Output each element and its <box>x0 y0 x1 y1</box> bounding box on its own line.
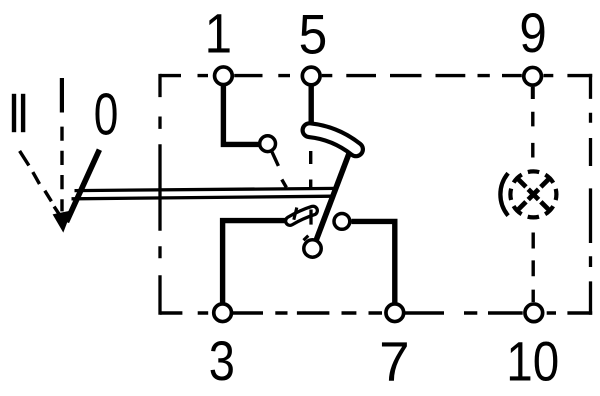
lever arrowhead <box>53 210 72 232</box>
terminal 9 stub <box>531 87 535 99</box>
lamp dashed circle <box>510 171 556 217</box>
actuator lever (position 0) <box>67 150 100 222</box>
lamp X cross <box>518 179 548 209</box>
svg-text:10: 10 <box>506 331 559 393</box>
enclosure left border <box>158 74 161 315</box>
terminal 1 <box>215 67 233 85</box>
phantom arm vertical dashed <box>309 151 312 189</box>
actuator shaft bottom line <box>72 196 334 199</box>
svg-text:5: 5 <box>299 4 328 66</box>
svg-text:0: 0 <box>94 82 119 148</box>
svg-text:9: 9 <box>519 2 546 65</box>
contact circle to terminal 7 <box>334 214 350 230</box>
position II dashed lever line <box>20 151 60 215</box>
wire bracket terminal 7 <box>352 221 395 304</box>
bridge rivet tick 3 <box>304 236 309 241</box>
dashed wire lamp to terminal 10 <box>532 233 535 303</box>
svg-text:1: 1 <box>205 3 232 66</box>
terminal 3 <box>214 304 232 322</box>
switch position label II <box>12 94 25 132</box>
terminal 10 <box>525 304 543 322</box>
terminal 7 <box>386 304 404 322</box>
actuator shaft top line <box>75 188 337 190</box>
wire bracket terminal 3 <box>223 221 288 304</box>
switch position label I <box>60 78 64 113</box>
lamp reflector arc <box>500 173 508 215</box>
contact circle at arm end <box>304 240 321 257</box>
moving contact arm <box>313 147 352 249</box>
lamp L (illumination) <box>500 171 556 217</box>
wire terminal 5 to rocker <box>309 84 314 128</box>
contact circle from terminal 1 <box>260 136 276 152</box>
bridge rivet tick 2 <box>309 210 312 225</box>
enclosure top border <box>160 74 592 77</box>
dashed wire terminal 9 to lamp <box>531 112 534 158</box>
phantom arm position dashed (toward contact 1) <box>272 151 287 187</box>
enclosure bottom border <box>160 311 592 314</box>
terminal 9 <box>524 67 542 85</box>
rocker contact bridge (curved outlined) <box>310 130 357 149</box>
svg-text:7: 7 <box>379 330 410 393</box>
small contact bridge (curved outlined) <box>290 211 313 221</box>
enclosure right border <box>589 74 592 315</box>
position I dashed lever line <box>60 127 63 212</box>
bridge rivet tick 1 <box>294 208 297 220</box>
terminal 5 <box>302 67 320 85</box>
wire terminal 1 to contact circle <box>223 84 259 144</box>
svg-text:3: 3 <box>209 329 235 392</box>
